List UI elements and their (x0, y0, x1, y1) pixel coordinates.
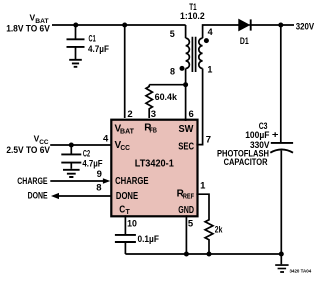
svg-text:0.1µF: 0.1µF (138, 234, 160, 244)
svg-text:1: 1 (200, 181, 206, 192)
svg-text:BAT: BAT (120, 128, 135, 135)
svg-text:+: + (272, 129, 279, 139)
svg-text:CC: CC (120, 145, 130, 152)
svg-text:CHARGE: CHARGE (17, 176, 47, 186)
svg-text:SEC: SEC (178, 141, 194, 152)
svg-text:REF: REF (183, 194, 195, 201)
svg-text:10: 10 (127, 219, 137, 230)
svg-text:CHARGE: CHARGE (115, 176, 149, 187)
svg-text:GND: GND (178, 205, 194, 216)
svg-text:4.7µF: 4.7µF (88, 44, 109, 54)
svg-text:5: 5 (170, 29, 175, 39)
svg-text:4.7µF: 4.7µF (82, 159, 103, 169)
svg-text:6: 6 (189, 109, 194, 120)
svg-text:T: T (126, 209, 131, 216)
svg-text:2.5V TO 6V: 2.5V TO 6V (6, 145, 50, 155)
svg-text:8: 8 (96, 183, 101, 194)
svg-text:1.8V TO 6V: 1.8V TO 6V (6, 24, 50, 34)
svg-text:SW: SW (179, 124, 194, 135)
svg-text:C: C (119, 204, 125, 215)
svg-text:1:10.2: 1:10.2 (180, 11, 205, 21)
svg-text:3420 TA04: 3420 TA04 (290, 269, 312, 274)
svg-text:4: 4 (103, 133, 109, 144)
svg-text:2: 2 (127, 109, 132, 120)
svg-text:LT3420-1: LT3420-1 (135, 158, 174, 169)
svg-text:C2: C2 (83, 148, 90, 158)
svg-text:5: 5 (188, 219, 194, 230)
svg-text:DONE: DONE (116, 191, 138, 202)
svg-text:CAPACITOR: CAPACITOR (224, 157, 268, 167)
svg-text:7: 7 (206, 134, 211, 145)
svg-text:3: 3 (151, 109, 156, 120)
svg-text:FB: FB (150, 128, 157, 135)
svg-text:C1: C1 (89, 34, 96, 44)
svg-text:DONE: DONE (28, 190, 48, 200)
svg-text:4: 4 (208, 27, 213, 37)
svg-text:60.4k: 60.4k (155, 92, 178, 102)
svg-text:100µF: 100µF (245, 130, 270, 140)
svg-text:D1: D1 (240, 36, 249, 46)
svg-text:8: 8 (170, 66, 175, 76)
svg-text:9: 9 (97, 169, 102, 180)
svg-text:2k: 2k (215, 225, 223, 235)
svg-text:1: 1 (207, 65, 212, 75)
svg-text:320V: 320V (296, 22, 314, 32)
